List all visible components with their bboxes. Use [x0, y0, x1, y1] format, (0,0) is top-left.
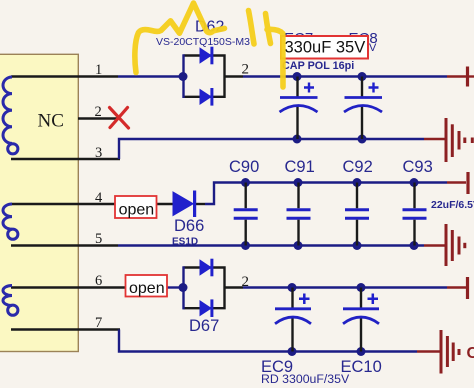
svg-text:2: 2	[95, 104, 102, 120]
svg-text:C92: C92	[343, 158, 373, 176]
svg-text:C91: C91	[285, 158, 315, 176]
svg-text:D66: D66	[174, 217, 204, 235]
svg-text:7: 7	[95, 315, 102, 331]
svg-text:2: 2	[242, 62, 250, 78]
svg-text:5: 5	[95, 231, 102, 247]
svg-text:3: 3	[95, 145, 102, 161]
svg-text:VS-20CTQ150S-M3: VS-20CTQ150S-M3	[156, 36, 250, 48]
svg-text:D67: D67	[189, 317, 219, 335]
svg-text:6: 6	[95, 273, 102, 289]
svg-text:open: open	[129, 280, 165, 297]
svg-text:NC: NC	[38, 111, 64, 132]
svg-text:330uF 35V: 330uF 35V	[285, 39, 366, 57]
svg-text:1: 1	[95, 62, 102, 78]
svg-text:C93: C93	[403, 158, 433, 176]
svg-text:C: C	[467, 345, 474, 362]
svg-text:2: 2	[242, 274, 250, 290]
svg-text:ES1D: ES1D	[172, 237, 198, 248]
svg-text:RD 3300uF/35V: RD 3300uF/35V	[261, 372, 350, 386]
svg-text:22uF/6.5V: 22uF/6.5V	[431, 199, 474, 211]
svg-text:4: 4	[95, 190, 103, 206]
svg-text:open: open	[119, 202, 155, 219]
svg-text:CAP POL 16pi: CAP POL 16pi	[282, 60, 354, 72]
svg-text:C90: C90	[229, 158, 259, 176]
